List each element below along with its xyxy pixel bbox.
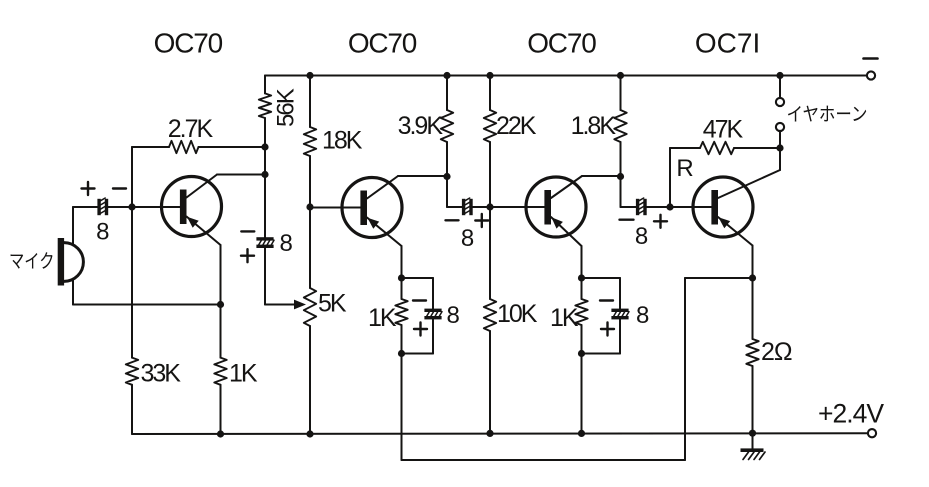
- label R: [676, 155, 693, 182]
- wire Q2 base node down to 5K: [309, 207, 311, 288]
- wire C2 down to wiper: [265, 248, 296, 305]
- wire mic bottom lead: [72, 280, 74, 305]
- label 8 value of C2: [280, 230, 293, 257]
- label transistor type OC71 (stage 4): [695, 28, 760, 59]
- wire mic return to emitter node: [73, 304, 221, 306]
- resistor 1.8K: [614, 110, 626, 177]
- wire Q3 base lead: [490, 206, 545, 208]
- node stage1 1K at bottom rail: [217, 430, 224, 437]
- node 10K at bottom rail: [486, 430, 493, 437]
- capacitor C5 8uF emitter bypass stage3: [611, 309, 629, 320]
- svg-text:8: 8: [636, 302, 649, 329]
- svg-text:OC70: OC70: [154, 28, 223, 59]
- resistor 2 ohm: [746, 278, 758, 433]
- wire Q4 collector corner up to 47K node: [779, 148, 781, 170]
- wire top negative supply rail: [265, 75, 867, 77]
- wire Q2 collector to 3.9K node: [398, 175, 447, 177]
- resistor 1K emitter stage3: [575, 278, 587, 354]
- resistor 22K: [484, 110, 496, 207]
- node 5K at bottom rail: [306, 430, 313, 437]
- svg-text:22K: 22K: [496, 112, 537, 140]
- node 2ohm at bottom rail: [749, 430, 756, 437]
- wire C5 lower lead: [582, 320, 621, 354]
- transistor Q4 OC71: [693, 170, 780, 278]
- node emitter Q3: [578, 274, 585, 281]
- node 2.7K at 56K line: [261, 143, 268, 150]
- capacitor C2 8uF to volume control: [256, 237, 274, 248]
- wire C5 top branch: [582, 277, 621, 279]
- transistor Q1 OC70: [162, 175, 222, 305]
- wire C5 upper lead: [619, 278, 621, 309]
- label - of C4: [413, 299, 426, 301]
- wire top rail to 3.9K: [446, 76, 448, 111]
- label マイク: [9, 251, 55, 273]
- label + of C3: [475, 214, 488, 227]
- terminal earphone lower: [776, 123, 784, 131]
- wire top rail to earphone terminal: [779, 76, 781, 99]
- label 10K: [497, 300, 538, 328]
- capacitor C1 8uF input coupling: [97, 198, 108, 215]
- label transistor type OC70 (stage 1): [154, 28, 223, 59]
- label - of C5: [600, 299, 613, 301]
- resistor 2.7K feedback: [132, 141, 265, 153]
- resistor 10K: [484, 299, 496, 433]
- label + of C4: [414, 323, 427, 336]
- svg-text:イヤホーン: イヤホーン: [787, 105, 868, 126]
- label 33K: [141, 360, 182, 388]
- node stage3 emitter network bottom: [578, 350, 585, 357]
- label 1K stage1: [229, 360, 258, 388]
- node base of Q2: [306, 203, 313, 210]
- svg-text:1K: 1K: [550, 304, 579, 332]
- label minus at negative terminal: [864, 57, 878, 60]
- svg-text:8: 8: [447, 302, 460, 329]
- svg-text:1K: 1K: [229, 360, 258, 388]
- capacitor C6 8uF interstage: [636, 198, 647, 215]
- svg-text:OC70: OC70: [527, 28, 596, 59]
- wire C1 to base node: [108, 206, 132, 208]
- resistor 1K emitter stage2: [395, 278, 407, 354]
- node base of Q1: [128, 203, 135, 210]
- svg-text:8: 8: [461, 225, 474, 252]
- node emitter Q2: [398, 274, 405, 281]
- svg-text:3.9K: 3.9K: [398, 112, 444, 140]
- label 2.7K: [168, 115, 214, 143]
- node 3.9K at top rail: [443, 72, 450, 79]
- label transistor type OC70 (stage 3): [527, 28, 596, 59]
- label 8 value of C6: [635, 223, 648, 250]
- wire top rail to 22K: [489, 76, 491, 111]
- potentiometer 5K volume: [304, 288, 316, 434]
- wire top rail to 18K: [309, 76, 311, 128]
- node 47K / earphone / collector: [776, 144, 783, 151]
- svg-text:10K: 10K: [497, 300, 538, 328]
- node emitter Q1 / mic return: [217, 301, 224, 308]
- transistor Q2 OC70: [342, 176, 402, 278]
- label + of C1: [82, 182, 95, 195]
- label - of C6: [620, 218, 634, 220]
- label 56K rotated: [273, 88, 300, 127]
- node stage2 emitter network bottom: [398, 350, 405, 357]
- wire Q2 base lead: [310, 207, 361, 209]
- label 22K: [496, 112, 537, 140]
- label 47K: [703, 116, 744, 144]
- label + of C6: [654, 215, 667, 228]
- wire C4 top branch: [402, 277, 434, 279]
- resistor 18K: [304, 127, 316, 207]
- svg-text:R: R: [676, 155, 693, 182]
- label 5K: [318, 290, 347, 318]
- capacitor C4 8uF emitter bypass stage2: [424, 309, 442, 320]
- wire feedback rise: [684, 278, 686, 460]
- wire C4 lower lead: [402, 320, 434, 354]
- svg-text:1.8K: 1.8K: [571, 112, 617, 140]
- node base of Q3: [486, 203, 493, 210]
- terminal +2.4V: [868, 429, 876, 437]
- microphone MIC: [58, 238, 84, 286]
- label 1K stage2: [368, 304, 397, 332]
- terminal negative output: [867, 71, 875, 79]
- label 18K: [322, 127, 363, 155]
- transistor Q3 OC70: [526, 176, 586, 278]
- node 1.8K at top rail: [617, 72, 624, 79]
- node 18K at top rail: [306, 72, 313, 79]
- resistor 3.9K: [441, 110, 453, 177]
- wire Q1 base node down to 33K: [131, 207, 133, 358]
- svg-text:2.7K: 2.7K: [168, 115, 214, 143]
- svg-text:OC70: OC70: [348, 28, 417, 59]
- label 8 value of C1: [96, 219, 109, 246]
- resistor 33K base bias: [126, 358, 138, 434]
- capacitor C3 8uF interstage: [462, 198, 473, 215]
- label 8 value of C3: [461, 225, 474, 252]
- wire Q3 collector node down to C6: [621, 177, 637, 208]
- wire Q2 collector node down to C3: [447, 177, 462, 208]
- node 22K at top rail: [486, 72, 493, 79]
- wire feedback down from stage2 network: [401, 354, 403, 461]
- resistor 56K collector load: [259, 76, 271, 238]
- label 1.8K: [571, 112, 617, 140]
- node emitter Q4: [749, 274, 756, 281]
- wire Q1 emitter node down: [220, 305, 222, 358]
- label 2 ohm: [761, 338, 792, 366]
- svg-text:5K: 5K: [318, 290, 347, 318]
- resistor 1K emitter stage1: [214, 358, 226, 434]
- wire feedback to Q4 emitter: [685, 277, 753, 279]
- label 8 value of C5: [636, 302, 649, 329]
- node Q1 collector at 56K line: [261, 171, 268, 178]
- wire C4 upper lead: [432, 278, 434, 309]
- label 8 value of C4: [447, 302, 460, 329]
- wiper arrow into 5K pot: [294, 300, 306, 310]
- wire feedback bottom run: [402, 459, 686, 461]
- wire bottom positive supply rail: [132, 432, 868, 435]
- wire Q3 base node down to 10K: [489, 207, 491, 299]
- node stage3 network at bottom rail: [578, 430, 585, 437]
- resistor 47K bias feedback: [670, 142, 780, 207]
- svg-text:8: 8: [280, 230, 293, 257]
- label 3.9K: [398, 112, 444, 140]
- svg-text:8: 8: [96, 219, 109, 246]
- wire C3 to Q3 base node: [473, 206, 490, 208]
- svg-text:OC7I: OC7I: [695, 28, 760, 59]
- svg-text:33K: 33K: [141, 360, 182, 388]
- label - of C1: [113, 187, 126, 189]
- node earphone at top rail: [776, 72, 783, 79]
- node Q3 collector at 1.8K line: [617, 173, 624, 180]
- wire stage3 network to bottom rail: [581, 354, 583, 434]
- node base of Q4: [666, 203, 673, 210]
- label イヤホーン: [787, 105, 868, 126]
- ground symbol: [741, 433, 766, 459]
- wire Q1 collector to 56K node: [217, 174, 265, 176]
- label 1K stage3: [550, 304, 579, 332]
- label +2.4V: [818, 399, 884, 429]
- wire Q1 base node up to 2.7K: [131, 147, 133, 207]
- wire earphone lower terminal down: [779, 131, 781, 148]
- wire C6 to Q4 base node: [647, 206, 670, 208]
- node Q2 collector at 3.9K line: [443, 173, 450, 180]
- terminal earphone upper: [776, 98, 784, 106]
- svg-text:18K: 18K: [322, 127, 363, 155]
- label + of C5: [601, 323, 614, 336]
- svg-text:56K: 56K: [273, 88, 300, 127]
- wire mic top lead: [73, 207, 98, 245]
- label transistor type OC70 (stage 2): [348, 28, 417, 59]
- wire Q4 base lead: [670, 206, 712, 208]
- label + of C2: [241, 249, 254, 262]
- svg-text:1K: 1K: [368, 304, 397, 332]
- svg-text:8: 8: [635, 223, 648, 250]
- wire Q1 base lead: [132, 206, 180, 208]
- svg-text:47K: 47K: [703, 116, 744, 144]
- svg-text:2Ω: 2Ω: [761, 338, 792, 366]
- svg-text:+2.4V: +2.4V: [818, 399, 884, 429]
- wire top rail to 1.8K: [620, 76, 622, 111]
- svg-text:マイク: マイク: [9, 251, 55, 273]
- label - of C2: [241, 230, 254, 232]
- wire Q3 collector to 1.8K node: [582, 175, 621, 177]
- label - of C3: [446, 219, 459, 221]
